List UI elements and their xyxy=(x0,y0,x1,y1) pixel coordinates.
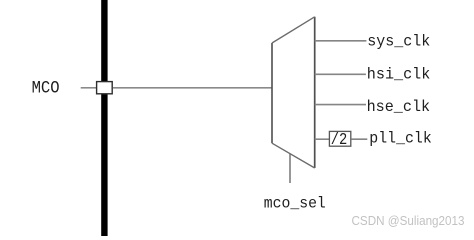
svg-text:CSDN @Suliang2013: CSDN @Suliang2013 xyxy=(352,214,465,228)
divider /2 box xyxy=(329,131,350,150)
svg-text:pll_clk: pll_clk xyxy=(369,129,432,147)
wire: mux to /2 divider xyxy=(315,138,329,140)
pin square on bus (MCO pad) xyxy=(97,82,113,94)
svg-text:hse_clk: hse_clk xyxy=(367,98,431,116)
svg-text:/2: /2 xyxy=(331,131,348,150)
bus: thick vertical rail xyxy=(101,0,107,236)
wire: /2 divider to pll_clk xyxy=(351,138,367,140)
svg-text:hsi_clk: hsi_clk xyxy=(367,65,431,83)
svg-text:sys_clk: sys_clk xyxy=(367,32,430,50)
wire: pin square to mux input xyxy=(113,87,272,89)
multiplexer U1 (trapezoid body) xyxy=(272,17,315,168)
svg-text:mco_sel: mco_sel xyxy=(264,194,326,212)
wire: mux to hsi_clk xyxy=(315,73,366,75)
svg-text:MCO: MCO xyxy=(32,79,60,99)
wire: mux to hse_clk xyxy=(315,104,366,106)
wire: mco_sel select line xyxy=(289,154,291,183)
wire: mux to sys_clk xyxy=(315,40,367,42)
wire: MCO lead to pin square xyxy=(81,87,96,89)
